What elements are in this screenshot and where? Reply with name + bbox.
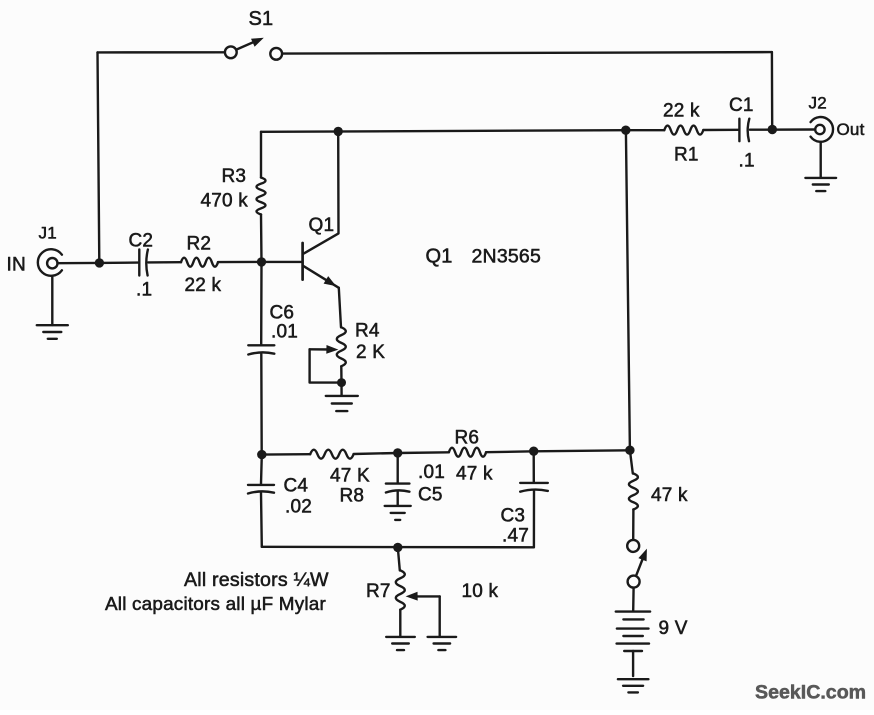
svg-text:R6: R6 bbox=[455, 428, 480, 449]
wire C1 to J2 bbox=[750, 128, 815, 131]
svg-text:47 K: 47 K bbox=[330, 466, 370, 487]
node mid-left junction bbox=[257, 450, 266, 459]
R7 wiper arrow bbox=[406, 592, 440, 601]
svg-text:.47: .47 bbox=[502, 526, 529, 547]
resistor R3 bbox=[257, 178, 266, 215]
svg-text:S1: S1 bbox=[249, 8, 274, 30]
wire right drop to C1 node bbox=[771, 52, 774, 129]
wire C6 to mid rail bbox=[260, 354, 263, 455]
R4 wiper arrow bbox=[310, 345, 339, 354]
switch S1 bbox=[225, 38, 282, 60]
wire emitter to R4 bbox=[339, 288, 341, 328]
wire J1 stem bbox=[51, 276, 53, 325]
svg-text:C1: C1 bbox=[729, 95, 754, 116]
node output junction bbox=[768, 125, 777, 134]
svg-text:C6: C6 bbox=[270, 303, 295, 324]
svg-text:C2: C2 bbox=[129, 231, 154, 252]
svg-text:All resistors ¼W: All resistors ¼W bbox=[184, 569, 329, 591]
wire C3 bottom bbox=[533, 491, 535, 547]
R4 wiper return wire bbox=[310, 349, 339, 382]
svg-text:C3: C3 bbox=[501, 506, 526, 527]
wire mid rail b bbox=[354, 453, 398, 454]
svg-text:.01: .01 bbox=[418, 462, 445, 483]
svg-text:R8: R8 bbox=[340, 486, 365, 507]
wire R7 bottom bbox=[399, 610, 401, 637]
wire right column bbox=[626, 130, 630, 450]
wire J1 to node bbox=[58, 262, 100, 265]
node C3 junction bbox=[529, 447, 538, 456]
wire 47k top bbox=[630, 450, 633, 473]
svg-text:J2: J2 bbox=[809, 94, 827, 113]
svg-text:R1: R1 bbox=[674, 145, 699, 166]
node input junction bbox=[95, 258, 104, 267]
svg-text:.01: .01 bbox=[271, 322, 298, 343]
connector J2 outer bbox=[811, 117, 833, 142]
wire R7 top bbox=[398, 547, 400, 570]
svg-text:R3: R3 bbox=[222, 166, 247, 187]
ground under J2 bbox=[805, 178, 836, 191]
svg-text:R7: R7 bbox=[366, 581, 391, 602]
node right column junction bbox=[625, 446, 634, 455]
svg-text:2 K: 2 K bbox=[356, 342, 385, 363]
wire C5 to ground bbox=[397, 492, 399, 506]
node R1 junction bbox=[621, 126, 630, 135]
wire R4 to ground node bbox=[340, 366, 343, 382]
connector J2 inner bbox=[815, 125, 824, 134]
wire top rail right bbox=[282, 52, 772, 54]
svg-text:.1: .1 bbox=[739, 151, 755, 172]
wire C4 top bbox=[260, 455, 263, 484]
capacitor C4 bbox=[248, 485, 274, 494]
wire C5 top bbox=[397, 453, 399, 483]
wire left drop to input node bbox=[98, 52, 100, 263]
ground under J1 bbox=[37, 325, 68, 339]
wire node to C2 bbox=[99, 261, 138, 264]
wire C4 bottom bbox=[260, 493, 263, 547]
resistor R8 bbox=[310, 450, 353, 459]
wire C3 top bbox=[533, 451, 535, 482]
capacitor C6 bbox=[248, 345, 274, 354]
resistor R1 bbox=[664, 126, 703, 135]
wire R4 node to ground bbox=[340, 383, 343, 396]
connector J1 inner bbox=[47, 258, 57, 268]
transistor Q1 base bar bbox=[301, 243, 304, 280]
resistor R7 bbox=[396, 570, 405, 609]
svg-text:Out: Out bbox=[837, 120, 865, 139]
svg-text:.02: .02 bbox=[285, 497, 312, 518]
transistor Q1 collector bbox=[304, 131, 339, 253]
ground under R7 bbox=[386, 637, 415, 650]
svg-text:Q1: Q1 bbox=[426, 246, 453, 268]
wire switch to battery bbox=[632, 588, 635, 611]
svg-text:47 k: 47 k bbox=[651, 485, 688, 506]
switch S2 bottom contact bbox=[628, 576, 640, 588]
svg-text:22 k: 22 k bbox=[185, 275, 222, 296]
wire C2 to R2 bbox=[148, 261, 181, 264]
svg-text:SeekIC.com: SeekIC.com bbox=[755, 682, 866, 704]
label Q1 type 2N3565 bbox=[426, 246, 542, 268]
switch S2 top contact bbox=[627, 540, 639, 552]
wire R2 to base node bbox=[218, 261, 262, 264]
connector J1 outer bbox=[38, 249, 62, 276]
wire base node to C6 bbox=[260, 262, 263, 344]
resistor R6 bbox=[449, 448, 486, 457]
svg-text:J1: J1 bbox=[39, 224, 57, 243]
capacitor C1 bbox=[739, 119, 749, 142]
svg-text:470 k: 470 k bbox=[201, 191, 249, 212]
svg-text:10 k: 10 k bbox=[462, 581, 499, 602]
resistor R4 bbox=[337, 327, 346, 366]
node C5 junction bbox=[393, 448, 402, 457]
ground under C5 bbox=[385, 506, 411, 520]
wire mid rail a bbox=[262, 453, 310, 456]
node R4 ground junction bbox=[337, 378, 346, 387]
capacitor C5 bbox=[386, 484, 410, 493]
switch S2 arm bbox=[636, 549, 647, 576]
wire 47k to switch bbox=[632, 510, 635, 540]
svg-text:R4: R4 bbox=[355, 321, 380, 342]
node base junction bbox=[257, 257, 266, 266]
svg-text:IN: IN bbox=[7, 255, 26, 276]
resistor 47k bbox=[629, 474, 638, 510]
resistor R2 bbox=[181, 258, 218, 267]
svg-text:Q1: Q1 bbox=[309, 215, 335, 236]
svg-text:R2: R2 bbox=[187, 234, 212, 255]
wire mid rail e bbox=[534, 450, 630, 451]
svg-text:47 k: 47 k bbox=[456, 464, 493, 485]
wire R1 to C1 bbox=[703, 129, 738, 132]
svg-text:9 V: 9 V bbox=[659, 618, 688, 639]
wire second rail bbox=[261, 130, 626, 132]
ground under R4 bbox=[326, 396, 358, 411]
wire mid rail c bbox=[398, 451, 449, 454]
wire base node to Q1 bbox=[262, 261, 303, 263]
svg-text:C4: C4 bbox=[284, 476, 309, 497]
wire rail2 left corner bbox=[260, 132, 262, 178]
transistor Q1 emitter bbox=[304, 266, 339, 288]
svg-text:.1: .1 bbox=[136, 280, 152, 301]
svg-text:2N3565: 2N3565 bbox=[472, 246, 542, 268]
wire battery to ground bbox=[632, 651, 634, 676]
ground under R7 wiper bbox=[428, 637, 457, 650]
battery 9V bbox=[616, 612, 650, 651]
node collector junction bbox=[334, 127, 343, 136]
svg-text:22 k: 22 k bbox=[663, 101, 700, 122]
wire mid rail d bbox=[486, 450, 534, 453]
wire top rail left bbox=[98, 51, 225, 54]
wire bottom rail bbox=[262, 546, 534, 549]
capacitor C2 bbox=[139, 250, 148, 276]
wire J2 stem bbox=[820, 142, 822, 178]
wire node to R1 bbox=[626, 129, 665, 131]
node R7 junction bbox=[393, 543, 402, 552]
capacitor C3 bbox=[520, 483, 548, 492]
svg-text:All capacitors all µF Mylar: All capacitors all µF Mylar bbox=[105, 594, 326, 615]
wire R3 to base node bbox=[260, 215, 263, 262]
R7 wiper drop wire bbox=[439, 596, 441, 636]
ground under battery bbox=[618, 679, 649, 692]
svg-text:C5: C5 bbox=[418, 485, 443, 506]
